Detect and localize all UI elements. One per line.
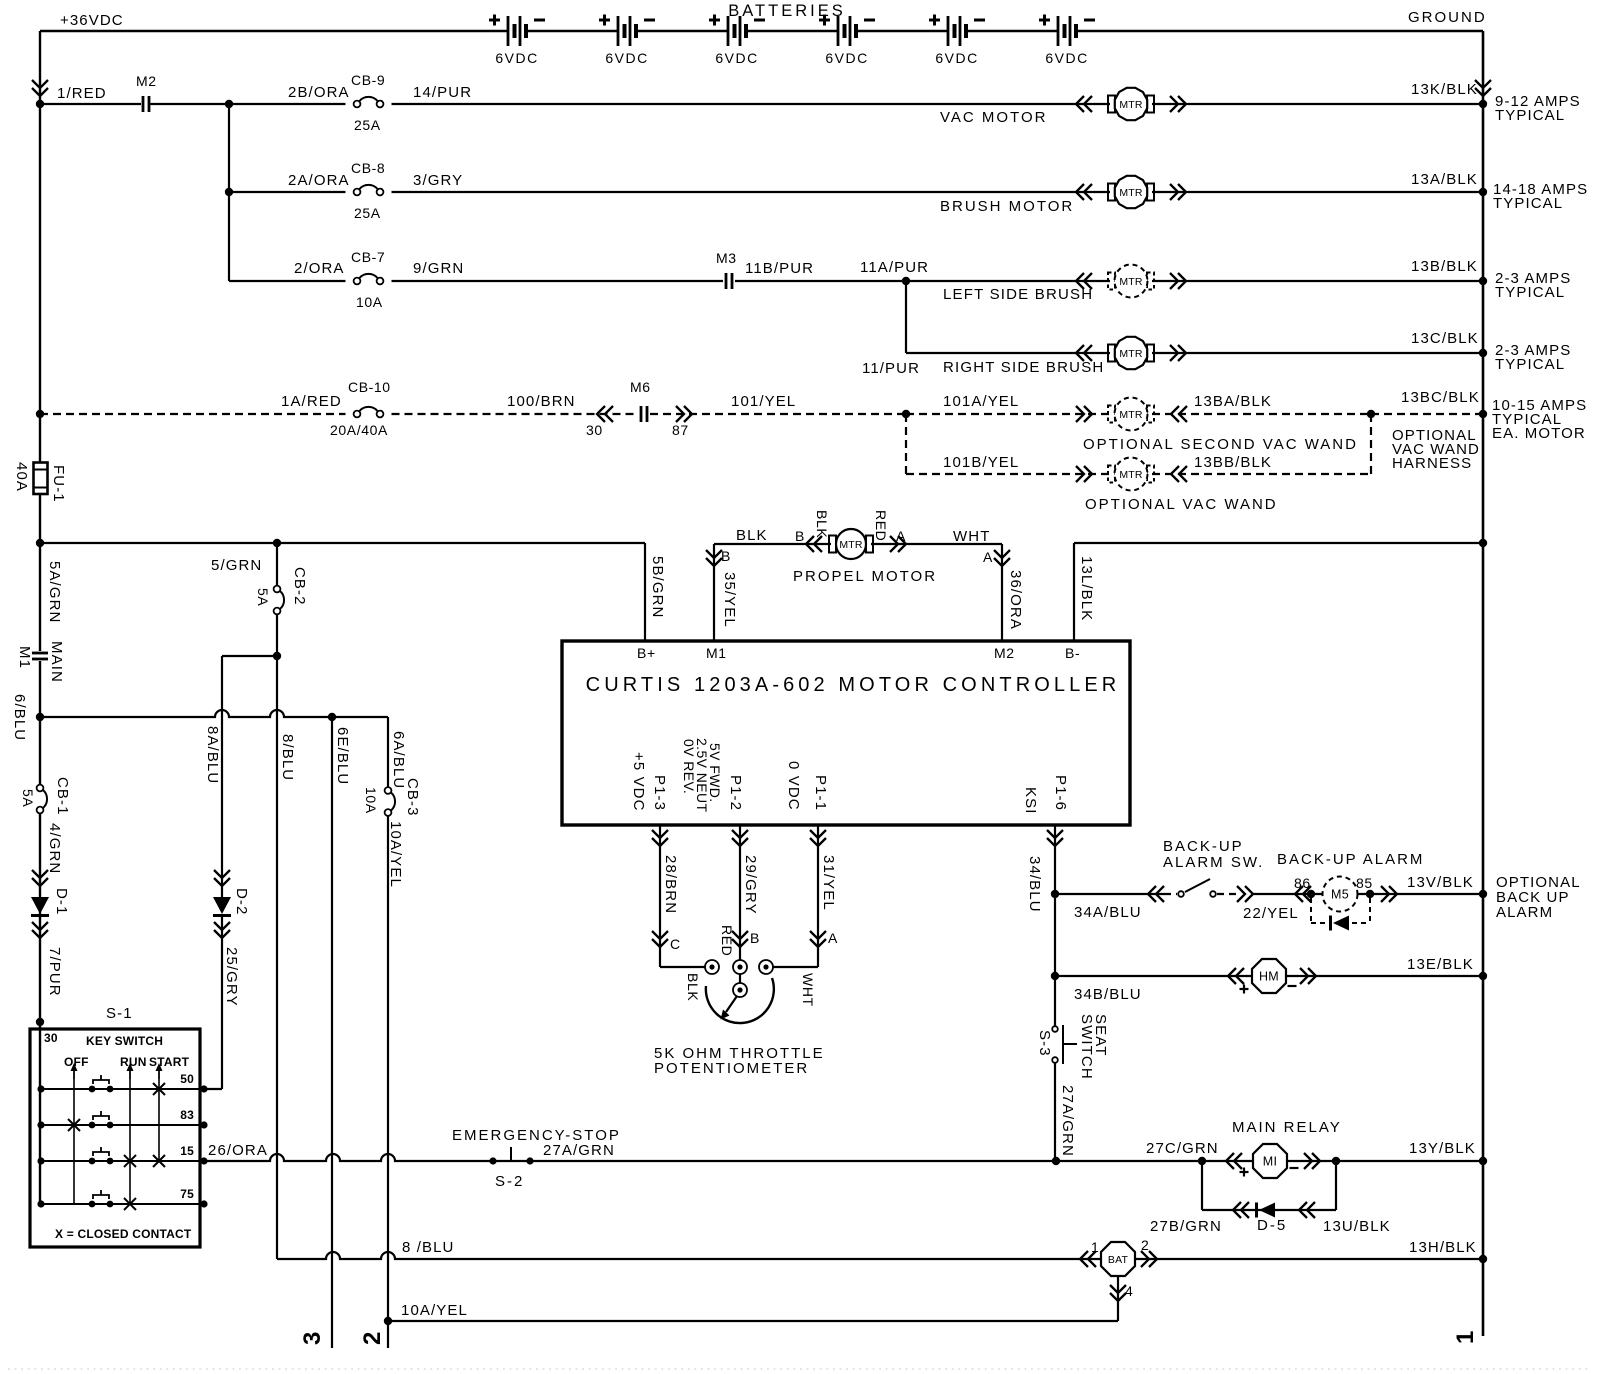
connector 30 [597, 406, 613, 422]
wire 101B/YEL dashed [905, 414, 907, 474]
svg-text:BLK: BLK [814, 510, 830, 538]
svg-text:S-3: S-3 [1036, 1030, 1053, 1057]
battery B6 6VDC [1039, 15, 1095, 67]
svg-text:M2: M2 [994, 645, 1015, 661]
breaker CB-3 10A [387, 717, 389, 787]
svg-text:2: 2 [359, 1332, 386, 1345]
svg-text:B: B [721, 548, 731, 564]
motor BRUSH MOTOR [1108, 176, 1154, 208]
wire row1 14/PUR [392, 103, 1111, 105]
svg-text:1/RED: 1/RED [57, 85, 107, 102]
svg-text:HARNESS: HARNESS [1392, 455, 1472, 472]
breaker CB-2 5A [276, 543, 278, 586]
svg-text:8/BLU: 8/BLU [279, 734, 296, 781]
node junction dashed row left rail [36, 410, 44, 418]
wire 8/BLU vertical [276, 656, 278, 1259]
svg-text:2A/ORA: 2A/ORA [288, 172, 350, 189]
node junction row2 [225, 188, 233, 196]
battery B1 6VDC [489, 15, 545, 67]
svg-text:M6: M6 [630, 379, 651, 395]
node junction 34B [1051, 972, 1059, 980]
svg-text:M1: M1 [16, 646, 33, 669]
contact M3 [725, 273, 728, 289]
node coil 85 [1366, 890, 1374, 898]
key switch columns [73, 1079, 75, 1204]
wire 5/GRN [40, 542, 645, 544]
svg-text:HM: HM [1259, 970, 1279, 984]
svg-text:22/YEL: 22/YEL [1243, 905, 1299, 922]
svg-text:+36VDC: +36VDC [60, 12, 124, 29]
node junction 101 split [902, 410, 910, 418]
svg-text:RUN: RUN [120, 1055, 147, 1069]
svg-text:A: A [828, 930, 838, 946]
connector 87 [676, 406, 692, 422]
diode D-5 bypass [1201, 1161, 1203, 1210]
svg-text:83: 83 [180, 1108, 194, 1122]
contact M1 MAIN on left rail [32, 652, 48, 655]
svg-text:9/GRN: 9/GRN [413, 260, 464, 277]
breaker CB-10 20A/40A [354, 411, 361, 418]
wire 5B/GRN to B+ [644, 543, 646, 641]
node 13L ground [1479, 539, 1487, 547]
node junction key switch feed [36, 1018, 44, 1026]
svg-text:P1-6: P1-6 [1052, 775, 1069, 811]
svg-text:13H/BLK: 13H/BLK [1409, 1239, 1477, 1256]
svg-text:M5: M5 [1331, 888, 1349, 902]
svg-text:5A: 5A [20, 789, 36, 807]
node 13H ground [1479, 1255, 1487, 1263]
svg-text:10A/YEL: 10A/YEL [387, 821, 404, 888]
svg-text:20A/40A: 20A/40A [330, 422, 388, 438]
svg-text:13L/BLK: 13L/BLK [1078, 556, 1095, 621]
svg-text:RED: RED [719, 925, 735, 956]
border dotted [8, 1368, 1592, 1370]
wire 26/ORA with jumps [204, 1154, 1483, 1161]
node row1 ground [1479, 100, 1487, 108]
svg-text:A: A [896, 528, 906, 544]
svg-text:S-1: S-1 [106, 1005, 133, 1022]
breaker CB-9 25A [354, 101, 361, 108]
svg-text:OFF: OFF [64, 1055, 89, 1069]
key switch row 83 [41, 1124, 200, 1126]
svg-text:11B/PUR: 11B/PUR [745, 260, 814, 277]
svg-text:36/ORA: 36/ORA [1007, 570, 1024, 630]
svg-text:5V FWD.: 5V FWD. [707, 743, 723, 803]
node junction 34A [1051, 890, 1059, 898]
wire top rail [40, 30, 508, 33]
battery B5 6VDC [929, 15, 985, 67]
battery B3 6VDC [709, 15, 765, 67]
svg-text:27C/GRN: 27C/GRN [1146, 1140, 1219, 1157]
svg-text:TYPICAL: TYPICAL [1495, 284, 1565, 301]
node junction 11A/PUR [902, 277, 910, 285]
svg-text:7/PUR: 7/PUR [46, 947, 63, 997]
svg-text:101/YEL: 101/YEL [731, 393, 796, 410]
svg-text:OPTIONAL SECOND VAC WAND: OPTIONAL SECOND VAC WAND [1083, 436, 1358, 453]
node 13E ground [1479, 972, 1487, 980]
svg-text:B: B [795, 528, 805, 544]
svg-text:14/PUR: 14/PUR [413, 84, 472, 101]
wire 36/ORA to M2 [1001, 544, 1003, 641]
motor VAC MOTOR [1108, 88, 1154, 120]
motor OPTIONAL VAC WAND (dashed) [1108, 458, 1154, 491]
svg-text:B-: B- [1065, 645, 1080, 661]
connector chevrons row1 [1076, 96, 1092, 112]
svg-text:START: START [149, 1055, 190, 1069]
switch S-3 SEAT SWITCH [1052, 1026, 1058, 1032]
wire 101/YEL dashed [650, 413, 906, 415]
svg-text:GROUND: GROUND [1408, 9, 1487, 26]
svg-text:MAIN: MAIN [48, 641, 65, 683]
svg-text:30: 30 [44, 1031, 58, 1045]
svg-text:2B/ORA: 2B/ORA [288, 84, 350, 101]
svg-text:3/GRY: 3/GRY [413, 172, 463, 189]
wire row3 [229, 280, 346, 282]
diode D-1 [32, 870, 48, 886]
svg-text:4/GRN: 4/GRN [46, 823, 63, 874]
svg-text:1: 1 [1091, 1239, 1099, 1255]
node relay branch right [1332, 1157, 1340, 1165]
wire left rail +36VDC [39, 31, 41, 463]
svg-text:26/ORA: 26/ORA [208, 1142, 268, 1159]
relay coil M5 backup alarm [1323, 877, 1358, 912]
svg-text:35/YEL: 35/YEL [721, 572, 738, 628]
node junction 27A [1052, 1157, 1060, 1165]
svg-text:CB-8: CB-8 [351, 160, 385, 176]
svg-text:87: 87 [672, 422, 689, 438]
node relay branch left [1198, 1157, 1206, 1165]
svg-text:34B/BLU: 34B/BLU [1074, 986, 1142, 1003]
svg-text:KEY SWITCH: KEY SWITCH [86, 1034, 163, 1048]
node 13V ground [1479, 890, 1487, 898]
svg-text:5A: 5A [255, 588, 271, 606]
svg-text:C: C [670, 936, 681, 952]
svg-text:1: 1 [1452, 1331, 1479, 1344]
wire 13BC/BLK dashed [1371, 413, 1483, 415]
diode backup alarm suppression (dashed box) [1310, 898, 1312, 923]
svg-text:85: 85 [1356, 875, 1373, 891]
connector chevrons propel A [890, 536, 906, 552]
wire 35/YEL M1 to motor [713, 544, 715, 641]
svg-text:13C/BLK: 13C/BLK [1411, 330, 1479, 347]
motor LEFT SIDE BRUSH (optional, dashed) [1108, 265, 1154, 298]
connector chevrons row5 [1076, 406, 1092, 422]
contact M2 [142, 96, 145, 112]
svg-text:P1-1: P1-1 [812, 775, 829, 811]
svg-text:5B/GRN: 5B/GRN [649, 556, 666, 618]
connector chevrons row6 [1076, 466, 1092, 482]
svg-text:8 /BLU: 8 /BLU [402, 1239, 454, 1256]
connector chevrons row4 [1076, 345, 1092, 361]
connector chevrons propel B [806, 536, 822, 552]
node junction CB-2 tap [273, 539, 281, 547]
svg-text:MTR: MTR [839, 539, 863, 551]
svg-text:34A/BLU: 34A/BLU [1074, 904, 1142, 921]
svg-text:BACK-UP ALARM: BACK-UP ALARM [1277, 851, 1424, 868]
wire 100/BRN dashed [392, 413, 639, 415]
svg-text:S-2: S-2 [495, 1173, 524, 1190]
svg-text:3: 3 [299, 1332, 326, 1345]
wire 13BB/BLK dashed [1152, 473, 1371, 475]
connector chevrons [1228, 968, 1244, 984]
switch S-1 KEY SWITCH box [30, 1029, 200, 1247]
svg-text:5/GRN: 5/GRN [211, 557, 262, 574]
svg-text:27A/GRN: 27A/GRN [1059, 1085, 1076, 1157]
svg-text:PROPEL MOTOR: PROPEL MOTOR [793, 568, 937, 585]
wire harness return dashed [1370, 414, 1372, 474]
svg-text:B+: B+ [637, 645, 656, 661]
switch S-2 EMERGENCY-STOP [489, 1157, 496, 1164]
svg-text:13U/BLK: 13U/BLK [1323, 1218, 1391, 1235]
contact M6 [640, 406, 643, 422]
svg-text:VAC MOTOR: VAC MOTOR [940, 109, 1047, 126]
wire 6/BLU with jumps [40, 710, 388, 717]
connector chevrons row2 [1076, 184, 1092, 200]
svg-text:28/BRN: 28/BRN [662, 855, 679, 914]
svg-text:P1-2: P1-2 [727, 775, 744, 811]
connector chevrons BAT [1080, 1251, 1096, 1267]
svg-text:10A/YEL: 10A/YEL [401, 1302, 468, 1319]
svg-text:86: 86 [1294, 875, 1311, 891]
wire 34B/BLU [1055, 975, 1483, 977]
svg-text:ALARM: ALARM [1496, 904, 1553, 921]
svg-text:30: 30 [586, 422, 603, 438]
svg-text:75: 75 [180, 1187, 194, 1201]
wire row2 [229, 191, 346, 193]
fuse FU-1 40A [34, 463, 48, 495]
svg-text:0 VDC: 0 VDC [785, 761, 802, 811]
svg-text:X = CLOSED CONTACT: X = CLOSED CONTACT [55, 1227, 192, 1241]
svg-text:D-5: D-5 [1257, 1217, 1287, 1234]
wire 28/BRN [659, 825, 661, 967]
node row4 ground [1479, 349, 1487, 357]
svg-text:31/YEL: 31/YEL [820, 855, 837, 911]
node junction 2B branch [225, 100, 233, 108]
svg-text:TYPICAL: TYPICAL [1495, 107, 1565, 124]
svg-text:101A/YEL: 101A/YEL [943, 393, 1019, 410]
svg-text:15: 15 [180, 1144, 194, 1158]
svg-text:2/ORA: 2/ORA [294, 260, 345, 277]
connector chevrons [1226, 1153, 1242, 1169]
connector chevron [1237, 886, 1253, 902]
svg-text:ALARM SW.: ALARM SW. [1163, 854, 1264, 871]
svg-text:34/BLU: 34/BLU [1026, 856, 1043, 913]
wire 13BA/BLK dashed [1152, 413, 1371, 415]
svg-text:LEFT SIDE BRUSH: LEFT SIDE BRUSH [943, 286, 1093, 303]
breaker CB-7 10A [354, 278, 361, 285]
svg-text:29/GRY: 29/GRY [742, 855, 759, 915]
wire 34/BLU [1054, 825, 1056, 1029]
svg-text:2: 2 [1141, 1237, 1149, 1253]
svg-text:CB-3: CB-3 [404, 778, 421, 817]
svg-text:1A/RED: 1A/RED [281, 393, 342, 410]
svg-text:D-1: D-1 [53, 888, 70, 915]
diode D-2 [214, 870, 230, 886]
key switch row 75 [41, 1203, 200, 1205]
svg-text:13BA/BLK: 13BA/BLK [1194, 393, 1272, 410]
wire 29/GRY [739, 825, 741, 960]
svg-text:6E/BLU: 6E/BLU [334, 727, 351, 785]
svg-text:BRUSH MOTOR: BRUSH MOTOR [940, 198, 1074, 215]
svg-text:10A: 10A [356, 294, 383, 310]
wire branch 2A vertical [228, 104, 230, 281]
svg-text:BACK-UP: BACK-UP [1163, 838, 1244, 855]
device BAT connector [1101, 1242, 1135, 1276]
svg-text:D-2: D-2 [233, 888, 250, 915]
svg-text:11/PUR: 11/PUR [862, 360, 920, 377]
wire 31/YEL [817, 825, 819, 967]
wire WHT [871, 543, 1002, 545]
svg-text:25A: 25A [354, 117, 381, 133]
svg-text:CB-9: CB-9 [351, 72, 385, 88]
svg-text:MAIN RELAY: MAIN RELAY [1232, 1119, 1342, 1136]
svg-text:CB-7: CB-7 [351, 249, 385, 265]
svg-text:M2: M2 [136, 73, 157, 89]
key switch row 15 [41, 1160, 200, 1162]
key position arrow [158, 1071, 160, 1079]
svg-text:13K/BLK: 13K/BLK [1411, 81, 1478, 98]
svg-text:CB-10: CB-10 [348, 379, 391, 395]
wire 101A/YEL dashed [906, 413, 1110, 415]
key position arrow [129, 1071, 131, 1079]
svg-text:KSI: KSI [1022, 787, 1039, 814]
svg-text:+5 VDC: +5 VDC [630, 752, 647, 812]
wire 34A/BLU [1055, 893, 1164, 895]
svg-text:TYPICAL: TYPICAL [1493, 195, 1563, 212]
hourmeter HM [1252, 959, 1286, 993]
breaker CB-8 25A [354, 189, 361, 196]
battery B4 6VDC [819, 15, 875, 67]
battery B2 6VDC [599, 15, 655, 67]
svg-text:BAT: BAT [1108, 1254, 1129, 1266]
svg-text:50: 50 [180, 1072, 194, 1086]
svg-text:13A/BLK: 13A/BLK [1411, 171, 1478, 188]
potentiometer 5K OHM THROTTLE [705, 960, 719, 974]
svg-text:M1: M1 [706, 645, 727, 661]
svg-text:POTENTIOMETER: POTENTIOMETER [654, 1060, 809, 1077]
svg-text:OPTIONAL VAC WAND: OPTIONAL VAC WAND [1085, 496, 1278, 513]
node junction 6E tap [328, 713, 336, 721]
connector chevron [1148, 886, 1164, 902]
svg-text:11A/PUR: 11A/PUR [860, 259, 929, 276]
wire 22/YEL [1253, 893, 1323, 895]
svg-text:13B/BLK: 13B/BLK [1411, 258, 1478, 275]
wire BLK propel [714, 543, 831, 545]
svg-text:13Y/BLK: 13Y/BLK [1409, 1140, 1476, 1157]
node junction row1 left [36, 100, 44, 108]
svg-text:EA. MOTOR: EA. MOTOR [1492, 425, 1586, 442]
svg-text:10A: 10A [363, 787, 379, 814]
svg-text:WHT: WHT [800, 973, 816, 1007]
node junction left rail 5/GRN [36, 539, 44, 547]
svg-text:CB-1: CB-1 [54, 777, 71, 816]
svg-text:TYPICAL: TYPICAL [1495, 356, 1565, 373]
svg-text:4: 4 [1125, 1283, 1133, 1299]
svg-text:101B/YEL: 101B/YEL [943, 454, 1019, 471]
node junction 8A tap [273, 652, 281, 660]
svg-text:MI: MI [1263, 1155, 1278, 1169]
svg-text:CURTIS 1203A-602 MOTOR CONTROL: CURTIS 1203A-602 MOTOR CONTROLLER [586, 674, 1121, 696]
svg-text:BLK: BLK [685, 973, 701, 1001]
svg-text:25A: 25A [354, 205, 381, 221]
wire 8A/BLU [222, 655, 277, 657]
svg-text:8A/BLU: 8A/BLU [204, 726, 221, 784]
motor RIGHT SIDE BRUSH [1108, 337, 1154, 369]
svg-text:25/GRY: 25/GRY [223, 947, 240, 1007]
svg-text:WHT: WHT [953, 528, 990, 545]
wire 13L/BLK B- to ground rail [1073, 543, 1075, 641]
svg-text:M3: M3 [716, 250, 737, 266]
key position arrow [73, 1071, 75, 1079]
controller CURTIS 1203A-602 box [562, 641, 1130, 825]
node 13Y ground [1479, 1157, 1487, 1165]
svg-text:6/BLU: 6/BLU [11, 694, 28, 741]
svg-text:RIGHT SIDE BRUSH: RIGHT SIDE BRUSH [943, 359, 1104, 376]
svg-text:100/BRN: 100/BRN [507, 393, 576, 410]
node junction 6/BLU [36, 713, 44, 721]
node junction harness [1367, 410, 1375, 418]
breaker CB-1 5A on left rail [37, 785, 44, 792]
svg-text:A: A [983, 549, 993, 565]
svg-text:P1-3: P1-3 [651, 775, 668, 811]
svg-text:13BC/BLK: 13BC/BLK [1401, 389, 1480, 406]
wire 27A/GRN [1054, 1063, 1056, 1161]
node row3 ground [1479, 277, 1487, 285]
svg-text:40A: 40A [13, 462, 30, 492]
wire 11/PUR branch [905, 281, 907, 353]
svg-text:CB-2: CB-2 [291, 567, 308, 606]
closed contact marks [153, 1083, 165, 1095]
svg-text:13V/BLK: 13V/BLK [1407, 874, 1474, 891]
svg-text:RED: RED [873, 510, 889, 541]
svg-text:13BB/BLK: 13BB/BLK [1194, 454, 1272, 471]
svg-text:B: B [750, 930, 760, 946]
wire 1A/RED dashed [40, 413, 346, 415]
svg-text:FU-1: FU-1 [50, 465, 67, 503]
wire row1 1/RED [40, 103, 141, 105]
svg-text:SWITCH: SWITCH [1078, 1014, 1095, 1080]
node junction 10A/YEL [384, 1317, 392, 1325]
node row2 ground [1479, 188, 1487, 196]
svg-text:27B/GRN: 27B/GRN [1150, 1218, 1222, 1235]
connector chevron [1295, 886, 1311, 902]
svg-text:27A/GRN: 27A/GRN [543, 1142, 615, 1159]
svg-text:BATTERIES: BATTERIES [728, 2, 845, 20]
svg-text:BLK: BLK [736, 527, 768, 544]
motor OPTIONAL SECOND VAC WAND (dashed) [1108, 398, 1154, 431]
wire BAT pin4 10A/YEL [1117, 1276, 1119, 1321]
node coil 86 [1307, 890, 1315, 898]
relay coil MI MAIN RELAY [1253, 1144, 1287, 1178]
motor PROPEL MOTOR [829, 536, 836, 553]
switch BACK-UP ALARM SW. [1164, 893, 1177, 895]
node row5 ground [1479, 410, 1487, 418]
svg-text:13E/BLK: 13E/BLK [1407, 956, 1474, 973]
connector chevrons row3 [1076, 273, 1092, 289]
key switch row 50 [41, 1088, 200, 1090]
wire 8/BLU with jumps [277, 1252, 1483, 1259]
wire right rail ground [1482, 31, 1485, 1336]
wire 25/GRY [221, 917, 223, 1089]
svg-text:5A/GRN: 5A/GRN [46, 561, 63, 623]
wire coil to rail 13V/BLK [1357, 893, 1483, 895]
